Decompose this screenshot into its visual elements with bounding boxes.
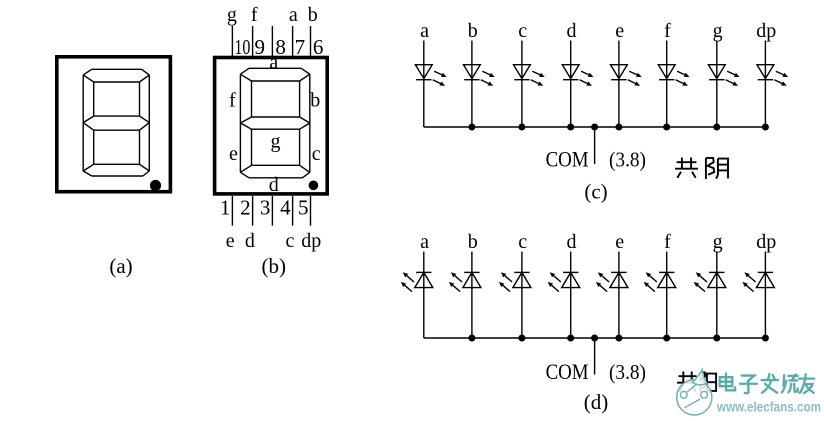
svg-text:f: f [664,231,671,253]
LED dp (c) cathode bar [758,79,773,81]
segment e outline [240,123,251,172]
LED c (c) cathode lead wire [521,80,523,127]
svg-text:9: 9 [255,35,266,59]
svg-text:dp: dp [301,230,321,252]
svg-text:COM: COM [546,359,589,384]
segment d outline [83,164,149,176]
svg-text:f: f [664,20,671,42]
segment f outline [240,74,251,123]
LED g (d) emission arrows [694,272,707,291]
svg-text:COM: COM [546,147,589,172]
watermark logo link lines [685,399,701,408]
COM stub wire (c) [594,127,596,164]
svg-text:d: d [567,231,577,253]
bottom pin leads (b) [232,196,310,226]
svg-text:dp: dp [756,231,776,253]
svg-text:b: b [308,4,318,26]
LED b (d) cathode lead [471,252,473,288]
segment d outline [240,165,309,178]
display package outline (a) [57,57,171,192]
bus junction dots (c) [468,124,769,131]
svg-text:b: b [468,231,478,253]
LED e (c) anode lead [618,41,620,80]
LED c (d) cathode lead [521,252,523,288]
LED g (d) cathode lead [716,252,718,288]
LED e (c) emission arrows [628,71,642,85]
segment g outline [240,117,309,129]
LED f (d) anode lead wire [666,288,668,338]
LED e (c) cathode bar [611,79,626,81]
svg-text:c: c [286,230,295,252]
watermark logo circle [677,370,712,416]
segment c outline [300,123,310,172]
LED a (c) anode lead [423,41,425,80]
LED b (c) cathode lead wire [471,80,473,127]
segment c outline [140,123,150,171]
svg-text:b: b [468,20,478,42]
LED b (c) diode triangle [464,65,481,79]
LED a (d) cathode bar [416,271,431,273]
LED a (c) cathode bar [416,79,431,81]
LED c (d) diode triangle [513,272,531,287]
svg-text:d: d [269,174,279,196]
LED b (c) cathode bar [464,79,479,81]
svg-text:6: 6 [313,35,324,59]
watermark glyph 友 [799,374,814,393]
segment b outline [140,75,150,123]
segment a outline [83,69,149,82]
LED b (d) anode lead wire [471,288,473,338]
LED g (c) cathode lead wire [716,80,718,127]
LED f (c) diode triangle [658,65,675,79]
LED a (d) anode lead wire [423,288,425,338]
COM stub wire (d) [594,338,596,375]
common anode bus wire (d) [424,337,766,339]
svg-text:d: d [567,20,577,42]
decimal point (a) [150,180,161,191]
LED d (c) cathode bar [563,79,578,81]
LED a (c) diode triangle [415,65,432,79]
LED e (d) cathode bar [611,271,626,273]
LED e (d) anode lead wire [618,288,620,338]
LED d (c) anode lead [570,41,572,80]
LED b (c) anode lead [471,41,473,80]
svg-text:g: g [271,131,281,153]
LED b (c) emission arrows [481,71,495,85]
svg-text:d: d [245,230,255,252]
svg-text:c: c [312,143,321,165]
decimal point (b) [309,181,319,191]
LED c (c) emission arrows [531,71,545,85]
svg-text:a: a [269,51,278,73]
共 of 共阳 common-anode label (d) [677,372,698,392]
svg-text:e: e [226,230,235,252]
svg-text:a: a [289,4,298,26]
LED d (d) anode lead wire [570,288,572,338]
svg-text:c: c [518,231,527,253]
LED b (d) emission arrows [449,272,462,291]
LED dp (d) cathode bar [758,271,773,273]
LED f (c) emission arrows [676,71,690,85]
top pin leads (b) [232,26,310,59]
LED a (d) cathode lead [423,252,425,288]
common cathode bus wire (c) [424,126,766,128]
svg-text:2: 2 [240,195,251,219]
LED d (d) cathode lead [570,252,572,288]
svg-text:(3.8): (3.8) [609,148,646,172]
display package outline (b) [215,58,328,194]
svg-text:7: 7 [295,35,306,59]
LED g (c) anode lead [716,41,718,80]
LED g (c) cathode bar [709,79,724,81]
watermark glyph 子 [740,376,757,394]
LED dp (c) emission arrows [774,71,788,85]
svg-text:e: e [229,143,238,165]
svg-text:c: c [518,20,527,42]
svg-text:10: 10 [234,35,250,59]
svg-text:5: 5 [298,195,309,219]
LED g (d) diode triangle [708,272,726,287]
LED c (d) emission arrows [499,272,512,291]
svg-text:1: 1 [220,195,231,219]
LED e (d) emission arrows [596,272,609,291]
svg-text:e: e [615,231,624,253]
共 of 共阴 common-cathode label (c) [675,158,698,178]
watermark glyph 发 [762,374,778,393]
LED dp (d) emission arrows [742,272,755,291]
LED dp (d) anode lead wire [764,288,766,338]
LED g (c) diode triangle [708,65,725,79]
LED g (d) cathode bar [709,271,724,273]
segment b outline [300,74,310,123]
svg-text:g: g [713,231,723,253]
svg-text:a: a [420,231,429,253]
svg-text:(a): (a) [109,254,132,278]
LED c (d) anode lead wire [521,288,523,338]
LED g (c) emission arrows [726,71,740,85]
watermark logo node circles [680,391,687,398]
LED dp (d) cathode lead [764,252,766,288]
svg-text:(b): (b) [262,254,287,278]
svg-text:a: a [420,20,429,42]
LED f (c) anode lead [666,41,668,80]
svg-text:g: g [713,20,723,42]
watermark glyph 烧 [782,375,798,393]
LED d (d) emission arrows [548,272,561,291]
LED dp (d) diode triangle [756,272,774,287]
svg-text:f: f [251,4,258,26]
LED d (d) cathode bar [563,271,578,273]
LED f (c) cathode bar [659,79,674,81]
LED d (c) cathode lead wire [570,80,572,127]
LED g (d) anode lead wire [716,288,718,338]
LED b (d) diode triangle [463,272,481,287]
LED f (d) emission arrows [644,272,657,291]
LED e (d) diode triangle [610,272,628,287]
bus junction dots (d) [468,335,769,342]
svg-text:www.elecfans.com: www.elecfans.com [716,400,821,415]
LED a (d) emission arrows [401,272,414,291]
watermark logo flame [693,370,708,385]
svg-text:b: b [310,90,320,112]
LED d (c) diode triangle [562,65,579,79]
svg-text:f: f [229,90,236,112]
svg-text:g: g [227,4,237,26]
LED d (d) diode triangle [562,272,580,287]
LED c (c) anode lead [521,41,523,80]
LED a (c) emission arrows [433,71,447,85]
LED dp (c) cathode lead wire [764,80,766,127]
阴 of 共阴 common-cathode label (c) [706,158,728,179]
svg-text:4: 4 [280,195,291,219]
svg-text:(3.8): (3.8) [609,360,646,384]
LED f (c) cathode lead wire [666,80,668,127]
svg-text:3: 3 [260,195,271,219]
segment g outline [83,116,149,130]
LED e (c) diode triangle [611,65,628,79]
LED d (c) emission arrows [580,71,594,85]
LED f (d) cathode lead [666,252,668,288]
segment a outline [240,68,309,81]
LED a (d) diode triangle [415,272,433,287]
LED c (c) diode triangle [514,65,531,79]
阳 of 共阳 common-anode label (d) [701,372,717,392]
svg-text:(c): (c) [584,180,607,204]
svg-text:e: e [615,20,624,42]
LED c (d) cathode bar [514,271,529,273]
svg-text:(d): (d) [584,390,609,414]
LED f (d) diode triangle [658,272,676,287]
segment f outline [83,75,94,123]
LED f (d) cathode bar [659,271,674,273]
LED dp (c) anode lead [764,41,766,80]
LED dp (c) diode triangle [757,65,774,79]
LED e (c) cathode lead wire [618,80,620,127]
watermark glyph 电 [720,374,735,391]
LED c (c) cathode bar [514,79,529,81]
LED e (d) cathode lead [618,252,620,288]
svg-text:dp: dp [756,20,776,42]
LED b (d) cathode bar [464,271,479,273]
segment e outline [83,123,94,171]
LED a (c) cathode lead wire [423,80,425,127]
